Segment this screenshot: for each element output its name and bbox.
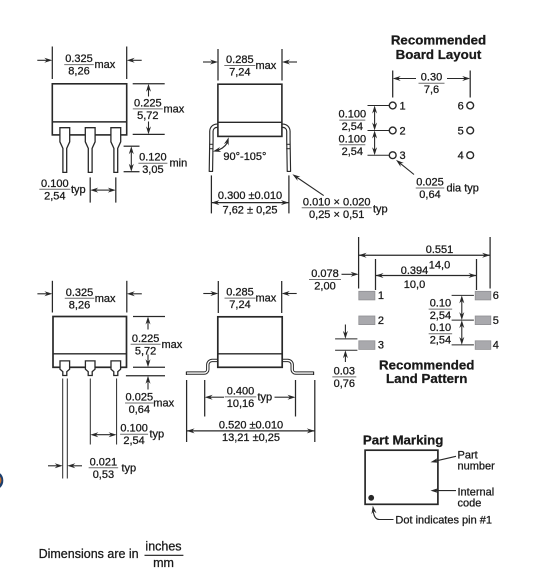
svg-text:2,54: 2,54 bbox=[430, 335, 451, 347]
svg-text:3: 3 bbox=[378, 340, 384, 352]
svg-text:7,62 ± 0,25: 7,62 ± 0,25 bbox=[223, 205, 278, 217]
svg-text:Land Pattern: Land Pattern bbox=[386, 371, 467, 386]
svg-text:max: max bbox=[95, 59, 116, 71]
svg-text:0,76: 0,76 bbox=[334, 378, 355, 390]
svg-text:0.100: 0.100 bbox=[41, 178, 69, 190]
svg-text:0.10: 0.10 bbox=[430, 322, 451, 334]
svg-text:inches: inches bbox=[145, 540, 181, 554]
svg-text:0.285: 0.285 bbox=[226, 54, 254, 66]
svg-text:0.010 × 0.020: 0.010 × 0.020 bbox=[303, 196, 371, 208]
svg-text:6: 6 bbox=[493, 290, 499, 302]
svg-text:5,72: 5,72 bbox=[137, 110, 158, 122]
svg-text:2,54: 2,54 bbox=[430, 310, 451, 322]
svg-text:Recommended: Recommended bbox=[391, 33, 486, 48]
svg-text:0.078: 0.078 bbox=[311, 268, 339, 280]
svg-text:0.394: 0.394 bbox=[401, 265, 429, 277]
svg-text:max: max bbox=[95, 293, 116, 305]
svg-text:0.325: 0.325 bbox=[66, 287, 94, 299]
svg-text:7,6: 7,6 bbox=[424, 84, 439, 96]
svg-text:13,21 ±0,25: 13,21 ±0,25 bbox=[222, 432, 280, 444]
svg-text:0.285: 0.285 bbox=[226, 287, 254, 299]
svg-text:2,54: 2,54 bbox=[342, 121, 363, 133]
svg-text:0.025: 0.025 bbox=[126, 392, 154, 404]
svg-text:number: number bbox=[458, 460, 496, 472]
svg-text:Dimensions are in: Dimensions are in bbox=[39, 547, 139, 561]
svg-text:Dot indicates pin #1: Dot indicates pin #1 bbox=[395, 514, 492, 526]
svg-text:Part Marking: Part Marking bbox=[363, 433, 444, 448]
svg-text:max: max bbox=[256, 60, 277, 72]
svg-text:0,53: 0,53 bbox=[93, 469, 114, 481]
svg-text:5,72: 5,72 bbox=[135, 345, 156, 357]
svg-text:0.225: 0.225 bbox=[132, 333, 160, 345]
svg-text:8,26: 8,26 bbox=[68, 66, 89, 78]
svg-text:max: max bbox=[153, 398, 174, 410]
svg-text:0.300 ±0.010: 0.300 ±0.010 bbox=[218, 190, 282, 202]
svg-text:2,00: 2,00 bbox=[314, 281, 335, 293]
svg-text:5: 5 bbox=[493, 315, 499, 327]
svg-text:min: min bbox=[170, 158, 188, 170]
svg-text:0,64: 0,64 bbox=[419, 189, 440, 201]
svg-text:4: 4 bbox=[493, 340, 499, 352]
svg-text:0.10: 0.10 bbox=[430, 298, 451, 310]
svg-text:mm: mm bbox=[153, 556, 174, 570]
svg-text:0.021: 0.021 bbox=[90, 456, 118, 468]
svg-text:0.520 ±0.010: 0.520 ±0.010 bbox=[219, 420, 283, 432]
svg-text:max: max bbox=[256, 293, 277, 305]
svg-text:0.100: 0.100 bbox=[339, 109, 367, 121]
svg-text:0.100: 0.100 bbox=[120, 423, 148, 435]
svg-text:0.400: 0.400 bbox=[227, 385, 255, 397]
svg-text:3,05: 3,05 bbox=[142, 164, 163, 176]
svg-text:0.03: 0.03 bbox=[334, 365, 355, 377]
svg-text:6: 6 bbox=[458, 100, 464, 112]
svg-text:2,54: 2,54 bbox=[44, 190, 65, 202]
svg-text:max: max bbox=[164, 103, 185, 115]
svg-text:typ: typ bbox=[150, 429, 165, 441]
svg-text:max: max bbox=[162, 339, 183, 351]
svg-text:1: 1 bbox=[378, 290, 384, 302]
svg-text:0.551: 0.551 bbox=[426, 244, 454, 256]
svg-text:2: 2 bbox=[378, 315, 384, 327]
svg-text:0,25 × 0,51: 0,25 × 0,51 bbox=[309, 209, 364, 221]
svg-text:90°-105°: 90°-105° bbox=[223, 151, 266, 163]
svg-text:2: 2 bbox=[400, 125, 406, 137]
svg-text:14,0: 14,0 bbox=[429, 259, 450, 271]
svg-text:typ: typ bbox=[71, 184, 86, 196]
svg-text:7,24: 7,24 bbox=[229, 67, 250, 79]
svg-text:0.120: 0.120 bbox=[139, 152, 167, 164]
svg-text:0,64: 0,64 bbox=[129, 404, 150, 416]
svg-text:1: 1 bbox=[400, 100, 406, 112]
svg-text:0.225: 0.225 bbox=[134, 97, 162, 109]
svg-text:0.100: 0.100 bbox=[339, 133, 367, 145]
svg-text:0.325: 0.325 bbox=[65, 53, 93, 65]
svg-text:dia typ: dia typ bbox=[447, 183, 479, 195]
svg-text:2,54: 2,54 bbox=[123, 435, 144, 447]
svg-text:Board Layout: Board Layout bbox=[396, 47, 482, 62]
svg-text:typ: typ bbox=[122, 462, 137, 474]
svg-text:2,54: 2,54 bbox=[342, 146, 363, 158]
svg-text:code: code bbox=[458, 497, 482, 509]
svg-text:0.025: 0.025 bbox=[416, 177, 444, 189]
svg-text:4: 4 bbox=[458, 150, 464, 162]
svg-text:typ: typ bbox=[258, 392, 273, 404]
svg-text:7,24: 7,24 bbox=[229, 299, 250, 311]
svg-text:0.30: 0.30 bbox=[421, 72, 442, 84]
svg-text:10,0: 10,0 bbox=[404, 279, 425, 291]
svg-text:10,16: 10,16 bbox=[227, 398, 255, 410]
svg-text:8,26: 8,26 bbox=[69, 299, 90, 311]
svg-text:5: 5 bbox=[458, 125, 464, 137]
svg-text:typ: typ bbox=[373, 203, 388, 215]
svg-text:3: 3 bbox=[400, 150, 406, 162]
